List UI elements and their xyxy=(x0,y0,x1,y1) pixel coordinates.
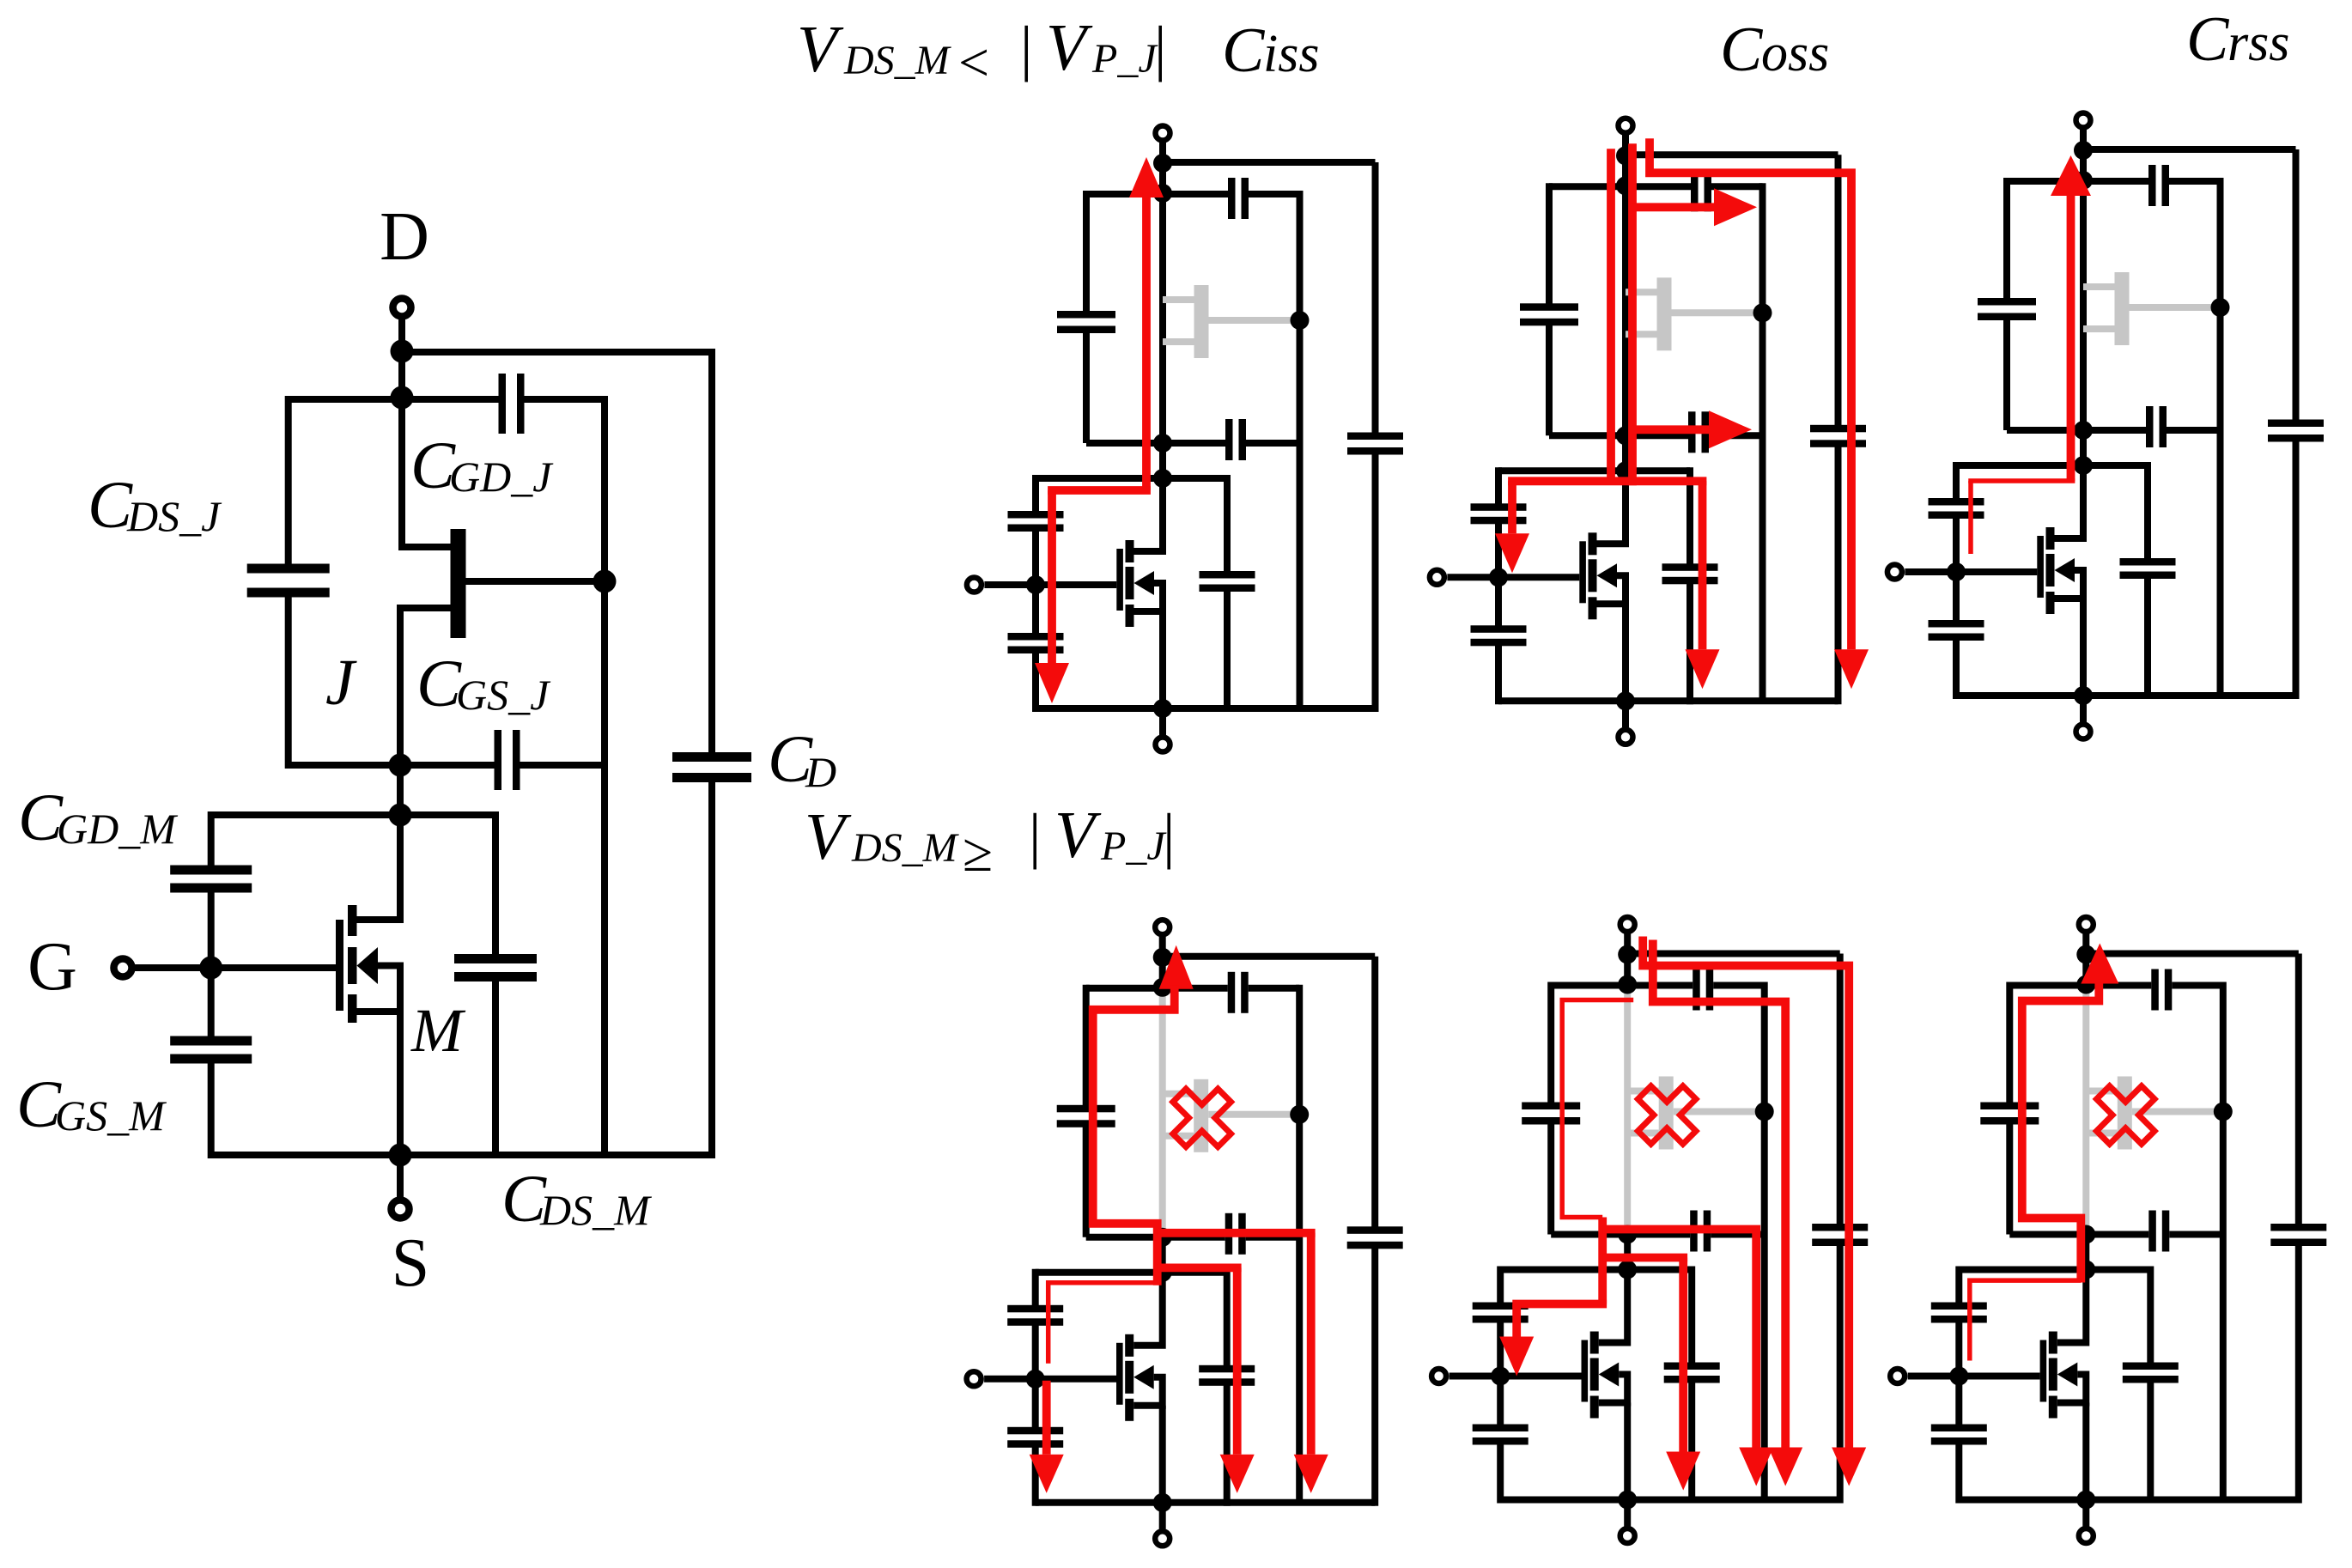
svg-text:V: V xyxy=(1046,10,1093,84)
svg-text:|: | xyxy=(1029,801,1041,870)
transistor J gate lead xyxy=(466,578,605,585)
current path Coss: branch down to CGD_M xyxy=(1508,481,1516,533)
current path Ciss: jog left above CGD_M xyxy=(1048,486,1151,495)
Coss circuit (VDS_M&lt;|VP_J|): capacitor CD xyxy=(1810,425,1866,447)
current path Coss: right vertical from D node xyxy=(1628,143,1637,485)
current path Crss: detour around off JFET xyxy=(2022,981,2100,1283)
junction dot M drain node xyxy=(389,804,412,827)
label CGS_J xyxy=(416,646,551,720)
Crss circuit (VDS_M&gt;=|VP_J|): junction dot JFET drain node xyxy=(2076,975,2095,994)
Crss circuit (VDS_M&lt;|VP_J|): capacitor CGD_M xyxy=(1929,498,1984,519)
Ciss circuit (VDS_M&gt;=|VP_J|): capacitor CD xyxy=(1347,1226,1403,1249)
label CGS_M xyxy=(16,1067,167,1141)
Ciss circuit (VDS_M&gt;=|VP_J|): transistor M gate bar xyxy=(1116,1343,1123,1405)
current path Coss: branch down into CGD_M xyxy=(1512,1304,1521,1337)
Crss circuit (VDS_M&lt;|VP_J|): junction dot S node xyxy=(2074,686,2093,705)
Ciss circuit (VDS_M&gt;=|VP_J|): node D terminal xyxy=(1155,920,1170,988)
current path Coss: branch down through CDS_M xyxy=(1699,481,1707,649)
Coss circuit (VDS_M&lt;|VP_J|): wire CD to S rail xyxy=(1835,443,1842,704)
Crss circuit (VDS_M&lt;|VP_J|): capacitor CDS_M xyxy=(2120,558,2176,579)
Coss circuit (VDS_M&lt;|VP_J|): junction dot S node xyxy=(1616,691,1635,710)
current path Ciss: arrow down through CDS_M xyxy=(1220,1455,1255,1493)
svg-text:|: | xyxy=(1020,14,1032,82)
current path Coss: arrow down through CD xyxy=(1834,649,1869,689)
capacitor CD xyxy=(672,752,751,782)
Coss circuit (VDS_M&lt;|VP_J|): wire CDS_J branch vertical xyxy=(1546,183,1553,307)
Crss circuit (VDS_M&lt;|VP_J|): wire CGS_J right segment xyxy=(2167,427,2221,434)
Ciss circuit (VDS_M&gt;=|VP_J|): wire M drain node horizontal xyxy=(1036,1269,1227,1276)
Coss circuit (VDS_M&lt;|VP_J|): wire CGD_J left segment xyxy=(1549,183,1691,190)
Crss circuit (VDS_M&lt;|VP_J|): wire right branch vertical xyxy=(2217,178,2224,696)
wire CGS_M branch vertical xyxy=(208,968,215,1041)
wire CDS_J branch vertical xyxy=(285,396,292,568)
svg-text:iss: iss xyxy=(1263,25,1319,83)
Crss circuit (VDS_M&gt;=|VP_J|): wire CGD_M branch vertical xyxy=(1955,1267,1962,1306)
Crss circuit (VDS_M&gt;=|VP_J|): transistor M source lead xyxy=(2057,1375,2087,1500)
label CDS_J xyxy=(88,467,222,542)
current path Coss: stub at D through CGD_J xyxy=(1653,940,1785,1448)
Ciss circuit (VDS_M&lt;|VP_J|): junction dot JFET source node xyxy=(1153,434,1172,453)
Crss circuit (VDS_M&lt;|VP_J|): transistor J source lead (inactive) xyxy=(2083,325,2115,332)
label M xyxy=(410,996,466,1065)
Crss circuit (VDS_M&lt;|VP_J|): junction dot D node xyxy=(2074,141,2093,160)
Crss circuit (VDS_M&gt;=|VP_J|): capacitor CD xyxy=(2270,1224,2326,1246)
current path Crss: thin branch toward gate xyxy=(1970,1280,2082,1360)
Coss circuit (VDS_M&gt;=|VP_J|): transistor J channel bar (inactive) xyxy=(1659,1077,1674,1150)
wire CDS_M branch vertical xyxy=(492,811,499,958)
Ciss circuit (VDS_M&lt;|VP_J|): wire node axis through JFET xyxy=(1159,193,1166,443)
Crss circuit (VDS_M&lt;|VP_J|): junction dot M drain node xyxy=(2074,456,2093,475)
svg-text:D: D xyxy=(805,748,836,796)
Crss circuit (VDS_M&lt;|VP_J|): junction dot JFET drain node xyxy=(2074,171,2093,190)
wire S rail xyxy=(211,1152,715,1158)
Coss circuit (VDS_M&gt;=|VP_J|): node S terminal xyxy=(1620,1500,1635,1544)
Coss circuit (VDS_M&lt;|VP_J|): capacitor CGS_M xyxy=(1471,625,1527,646)
Crss circuit (VDS_M&lt;|VP_J|): junction dot JFET source node xyxy=(2074,421,2093,440)
Crss circuit (VDS_M&lt;|VP_J|): wire CGS_M branch vertical xyxy=(1953,572,1960,623)
Coss circuit (VDS_M&gt;=|VP_J|): junction dot M drain node xyxy=(1618,1261,1637,1279)
transistor J drain lead xyxy=(402,398,451,547)
Ciss circuit (VDS_M&lt;|VP_J|): wire CGD_J right segment xyxy=(1249,191,1300,198)
svg-text:DS_J: DS_J xyxy=(126,492,222,540)
Crss circuit (VDS_M&gt;=|VP_J|): wire CD to S rail xyxy=(2295,1243,2302,1504)
Crss circuit (VDS_M&gt;=|VP_J|): wire CGS_J left segment xyxy=(2009,1231,2148,1238)
Ciss circuit (VDS_M&gt;=|VP_J|): junction dot D node xyxy=(1153,948,1172,967)
Crss circuit (VDS_M&gt;=|VP_J|): junction dot JFET gate xyxy=(2214,1103,2233,1121)
Coss circuit (VDS_M&lt;|VP_J|): wire S rail xyxy=(1498,697,1838,704)
Ciss circuit (VDS_M&lt;|VP_J|): capacitor CDS_J xyxy=(1057,311,1115,333)
Ciss circuit (VDS_M&gt;=|VP_J|): junction dot JFET gate xyxy=(1290,1105,1309,1124)
Crss circuit (VDS_M&gt;=|VP_J|): wire CGD_J right segment xyxy=(2172,982,2223,989)
current path Coss: arrow down into CGD_M xyxy=(1495,533,1529,573)
Ciss circuit (VDS_M&lt;|VP_J|): wire CDS_J to source node xyxy=(1083,330,1090,443)
Ciss circuit (VDS_M&gt;=|VP_J|): transistor J drain lead (inactive) xyxy=(1163,1091,1194,1097)
Ciss circuit (VDS_M&gt;=|VP_J|): junction dot JFET drain node xyxy=(1153,978,1172,997)
Ciss circuit (VDS_M&lt;|VP_J|): node G terminal xyxy=(967,578,982,593)
Crss circuit (VDS_M&lt;|VP_J|): transistor J channel bar (inactive) xyxy=(2115,272,2130,345)
label Ciss xyxy=(1222,15,1319,86)
Crss circuit (VDS_M&lt;|VP_J|): wire S rail xyxy=(1956,692,2296,699)
Coss circuit (VDS_M&lt;|VP_J|): wire CGS_J right segment xyxy=(1709,432,1763,439)
junction dot at D node xyxy=(391,340,414,363)
current path Ciss: branch right above CGS_J xyxy=(1158,1229,1316,1237)
current path Coss: arrow down into CGD_M xyxy=(1499,1337,1534,1377)
Coss circuit (VDS_M&lt;|VP_J|): wire CGS_J left segment xyxy=(1549,432,1688,439)
current path Coss: branch down right of CGS_J xyxy=(1752,1230,1760,1448)
Crss circuit (VDS_M&gt;=|VP_J|): wire CDS_J to source node xyxy=(2006,1121,2013,1235)
Ciss circuit (VDS_M&lt;|VP_J|): wire right branch vertical xyxy=(1297,191,1304,708)
current path Crss: thin tail into CGD_M xyxy=(1968,481,1973,554)
current path Coss: branch left to CGD_M xyxy=(1512,1300,1607,1309)
Ciss circuit (VDS_M&gt;=|VP_J|): transistor M source lead xyxy=(1133,1377,1163,1503)
Coss circuit (VDS_M&gt;=|VP_J|): transistor M channel segments xyxy=(1590,1332,1599,1419)
Ciss circuit (VDS_M&lt;|VP_J|): wire CD to S rail xyxy=(1372,451,1379,712)
svg-text:<: < xyxy=(958,32,989,93)
Ciss circuit (VDS_M&lt;|VP_J|): junction dot M drain node xyxy=(1153,469,1172,488)
svg-text:C: C xyxy=(1720,15,1764,85)
Coss circuit (VDS_M&lt;|VP_J|): junction dot JFET drain node xyxy=(1616,176,1635,195)
junction dot at JFET drain node xyxy=(391,386,414,410)
transistor M drain lead xyxy=(357,815,401,920)
svg-text:D: D xyxy=(380,199,429,275)
Coss circuit (VDS_M&gt;=|VP_J|): wire M drain node horizontal xyxy=(1500,1267,1692,1273)
Crss circuit (VDS_M&lt;|VP_J|): wire CDS_M to S rail xyxy=(2144,574,2151,699)
Coss circuit (VDS_M&gt;=|VP_J|): wire CDS_J branch vertical xyxy=(1547,982,1554,1106)
current path Ciss: branch down through CDS_M xyxy=(1233,1267,1242,1454)
Crss circuit (VDS_M&gt;=|VP_J|): wire M drain node horizontal xyxy=(1959,1267,2150,1273)
current path Coss: stub at D toward CD xyxy=(1650,138,1851,649)
Crss circuit (VDS_M&gt;=|VP_J|): capacitor CGS_J xyxy=(2148,1211,2169,1252)
Coss circuit (VDS_M&lt;|VP_J|): wire CGD_M to gate node xyxy=(1495,520,1502,577)
Ciss circuit (VDS_M&lt;|VP_J|): node D terminal xyxy=(1156,126,1170,195)
Crss circuit (VDS_M&lt;|VP_J|): node G terminal xyxy=(1887,565,1902,580)
Coss circuit (VDS_M&gt;=|VP_J|): transistor J source lead (inactive) xyxy=(1627,1130,1659,1137)
Crss circuit (VDS_M&lt;|VP_J|): wire CD to S rail xyxy=(2293,438,2300,699)
Coss circuit (VDS_M&lt;|VP_J|): wire M drain node horizontal xyxy=(1498,467,1690,474)
Ciss circuit (VDS_M&lt;|VP_J|): junction dot S node xyxy=(1153,699,1172,718)
Coss circuit (VDS_M&gt;=|VP_J|): JFET-off cross mark xyxy=(1638,1086,1696,1145)
node S terminal xyxy=(392,1155,410,1219)
Coss circuit (VDS_M&gt;=|VP_J|): wire to M drain node xyxy=(1624,1235,1631,1270)
Coss circuit (VDS_M&lt;|VP_J|): wire node axis through JFET xyxy=(1622,185,1629,435)
Ciss circuit (VDS_M&gt;=|VP_J|): wire right branch vertical xyxy=(1296,985,1303,1503)
svg-text:V: V xyxy=(805,799,852,873)
svg-text:C: C xyxy=(2186,4,2230,75)
Crss circuit (VDS_M&gt;=|VP_J|): transistor J source lead (inactive) xyxy=(2086,1130,2118,1137)
current path Ciss: branch down right rail xyxy=(1307,1233,1316,1455)
junction dot JFET source node xyxy=(389,754,412,777)
Ciss circuit (VDS_M&gt;=|VP_J|): capacitor CDS_M xyxy=(1199,1365,1255,1386)
Ciss circuit (VDS_M&gt;=|VP_J|): wire CD to S rail xyxy=(1371,1245,1378,1506)
Ciss circuit (VDS_M&lt;|VP_J|): wire D to CD branch xyxy=(1163,159,1376,166)
Ciss circuit (VDS_M&lt;|VP_J|): transistor J gate lead (inactive) xyxy=(1209,317,1300,324)
label D xyxy=(380,199,429,275)
Coss circuit (VDS_M&gt;=|VP_J|): junction dot JFET source node xyxy=(1618,1225,1637,1244)
Coss circuit (VDS_M&lt;|VP_J|): transistor J source lead (inactive) xyxy=(1626,331,1657,337)
Crss circuit (VDS_M&gt;=|VP_J|): node S terminal xyxy=(2079,1500,2094,1544)
Crss circuit (VDS_M&gt;=|VP_J|): node G terminal xyxy=(1890,1369,1905,1383)
Coss circuit (VDS_M&gt;=|VP_J|): transistor M body arrow xyxy=(1599,1363,1620,1387)
current path Ciss: detour around off JFET xyxy=(1093,986,1175,1285)
Ciss circuit (VDS_M&lt;|VP_J|): junction dot JFET gate xyxy=(1291,311,1310,330)
Coss circuit (VDS_M&gt;=|VP_J|): wire S rail xyxy=(1500,1497,1840,1504)
Crss circuit (VDS_M&lt;|VP_J|): capacitor CDS_J xyxy=(1978,298,2036,320)
Crss circuit (VDS_M&lt;|VP_J|): wire CGD_M to gate node xyxy=(1953,515,1960,572)
Coss circuit (VDS_M&gt;=|VP_J|): node D terminal xyxy=(1620,917,1635,986)
Ciss circuit (VDS_M&gt;=|VP_J|): wire S rail xyxy=(1036,1499,1376,1506)
Crss circuit (VDS_M&gt;=|VP_J|): transistor M channel segments xyxy=(2049,1332,2057,1419)
Ciss circuit (VDS_M&lt;|VP_J|): node S terminal xyxy=(1156,708,1170,752)
svg-text:G: G xyxy=(27,929,77,1005)
current path Ciss: arrow into D node xyxy=(1129,157,1164,198)
capacitor CDS_J xyxy=(247,564,330,598)
Ciss circuit (VDS_M&lt;|VP_J|): wire CGS_M to S rail xyxy=(1032,650,1039,712)
transistor M channel segments xyxy=(348,905,357,1023)
Crss circuit (VDS_M&gt;=|VP_J|): transistor J channel bar (inactive) xyxy=(2118,1077,2132,1150)
svg-text:GD_M: GD_M xyxy=(57,805,178,853)
current path Coss: branch through CGS_J xyxy=(1632,425,1709,434)
transistor M source lead xyxy=(357,966,401,1159)
Crss circuit (VDS_M&gt;=|VP_J|): capacitor CGD_M xyxy=(1931,1303,1987,1323)
capacitor CDS_M xyxy=(454,954,537,982)
Crss circuit (VDS_M&lt;|VP_J|): wire to M drain node xyxy=(2080,430,2087,465)
current path Coss: arrow down through CD xyxy=(1832,1448,1866,1486)
Coss circuit (VDS_M&gt;=|VP_J|): capacitor CDS_M xyxy=(1664,1363,1720,1383)
Coss circuit (VDS_M&lt;|VP_J|): wire G to MOSFET gate xyxy=(1447,574,1579,580)
wire M drain node horizontal xyxy=(211,811,495,818)
Ciss circuit (VDS_M&gt;=|VP_J|): JFET-off cross mark xyxy=(1173,1089,1231,1147)
Crss circuit (VDS_M&gt;=|VP_J|): wire right branch vertical xyxy=(2220,982,2227,1500)
Crss circuit (VDS_M&lt;|VP_J|): transistor M gate bar xyxy=(2037,536,2044,598)
Crss circuit (VDS_M&lt;|VP_J|): capacitor CD xyxy=(2268,420,2324,442)
Coss circuit (VDS_M&gt;=|VP_J|): transistor M drain lead xyxy=(1599,1270,1628,1343)
label S xyxy=(392,1225,430,1301)
Ciss circuit (VDS_M&gt;=|VP_J|): wire CDS_J to source node xyxy=(1083,1124,1090,1237)
Crss circuit (VDS_M&gt;=|VP_J|): transistor J gate lead (inactive) xyxy=(2132,1109,2223,1115)
Ciss circuit (VDS_M&gt;=|VP_J|): node S terminal xyxy=(1155,1503,1170,1547)
current path Coss: vertical at M drain xyxy=(1598,1218,1607,1304)
Crss circuit (VDS_M&gt;=|VP_J|): wire CGS_M to S rail xyxy=(1955,1442,1962,1504)
Coss circuit (VDS_M&lt;|VP_J|): junction dot G node xyxy=(1489,568,1508,586)
svg-text:GS_J: GS_J xyxy=(456,671,551,719)
Ciss circuit (VDS_M&lt;|VP_J|): capacitor CD xyxy=(1347,433,1403,455)
current path Coss: horizontal distribution at M drain xyxy=(1508,477,1706,485)
label Coss xyxy=(1720,15,1829,85)
Ciss circuit (VDS_M&gt;=|VP_J|): transistor M channel segments xyxy=(1125,1334,1133,1421)
current path Coss: arrow down through CDS_M xyxy=(1686,649,1720,689)
transistor M gate bar xyxy=(336,920,343,1011)
Coss circuit (VDS_M&lt;|VP_J|): wire CGS_M to S rail xyxy=(1495,642,1502,704)
Coss circuit (VDS_M&gt;=|VP_J|): transistor J drain lead (inactive) xyxy=(1627,1088,1659,1095)
Coss circuit (VDS_M&lt;|VP_J|): wire D to CD branch xyxy=(1626,151,1838,158)
wire CGD_M branch vertical xyxy=(208,811,215,870)
Ciss circuit (VDS_M&lt;|VP_J|): transistor M drain lead xyxy=(1134,478,1164,551)
Ciss circuit (VDS_M&gt;=|VP_J|): wire CDS_J branch vertical xyxy=(1083,985,1090,1109)
Ciss circuit (VDS_M&gt;=|VP_J|): junction dot S node xyxy=(1153,1493,1172,1512)
Crss circuit (VDS_M&gt;=|VP_J|): junction dot M drain node xyxy=(2076,1261,2095,1279)
Coss circuit (VDS_M&gt;=|VP_J|): junction dot G node xyxy=(1491,1367,1510,1386)
Coss circuit (VDS_M&lt;|VP_J|): junction dot D node xyxy=(1616,146,1635,165)
Ciss circuit (VDS_M&gt;=|VP_J|): wire CD branch vertical xyxy=(1371,957,1378,1231)
Crss circuit (VDS_M&gt;=|VP_J|): junction dot D node xyxy=(2076,945,2095,964)
Ciss circuit (VDS_M&lt;|VP_J|): wire CDS_M branch vertical xyxy=(1224,475,1231,575)
svg-text:J: J xyxy=(325,647,357,719)
Coss circuit (VDS_M&gt;=|VP_J|): capacitor CGS_M xyxy=(1473,1425,1528,1445)
capacitor CGD_J xyxy=(499,374,525,434)
Crss circuit (VDS_M&lt;|VP_J|): wire D to CD branch xyxy=(2083,146,2296,153)
Crss circuit (VDS_M&gt;=|VP_J|): wire CDS_M branch vertical xyxy=(2147,1267,2154,1367)
capacitor CGD_M xyxy=(170,866,252,893)
Ciss circuit (VDS_M&gt;=|VP_J|): junction dot JFET source node xyxy=(1153,1228,1172,1247)
Ciss circuit (VDS_M&lt;|VP_J|): wire CGD_M branch vertical xyxy=(1032,475,1039,514)
wire CGS_J right segment xyxy=(520,762,605,769)
Ciss circuit (VDS_M&lt;|VP_J|): transistor J channel bar (inactive) xyxy=(1194,285,1209,358)
svg-text:S: S xyxy=(392,1225,430,1301)
Coss circuit (VDS_M&gt;=|VP_J|): wire right branch vertical xyxy=(1761,982,1768,1500)
node D terminal xyxy=(393,299,411,400)
Crss circuit (VDS_M&gt;=|VP_J|): junction dot S node xyxy=(2076,1491,2095,1510)
Coss circuit (VDS_M&gt;=|VP_J|): wire CGD_M to gate node xyxy=(1497,1320,1504,1377)
Crss circuit (VDS_M&lt;|VP_J|): transistor M channel segments xyxy=(2046,527,2055,614)
Crss circuit (VDS_M&gt;=|VP_J|): wire node axis through JFET xyxy=(2082,985,2089,1235)
Ciss circuit (VDS_M&lt;|VP_J|): wire CGS_J right segment xyxy=(1246,440,1300,447)
Ciss circuit (VDS_M&gt;=|VP_J|): wire CGS_M branch vertical xyxy=(1032,1379,1039,1431)
Ciss circuit (VDS_M&gt;=|VP_J|): capacitor CGD_J xyxy=(1228,972,1249,1013)
Coss circuit (VDS_M&lt;|VP_J|): transistor J gate lead (inactive) xyxy=(1672,309,1763,316)
Crss circuit (VDS_M&gt;=|VP_J|): capacitor CGD_J xyxy=(2151,969,2172,1011)
Ciss circuit (VDS_M&lt;|VP_J|): wire CD branch vertical xyxy=(1372,162,1379,436)
Crss circuit (VDS_M&gt;=|VP_J|): JFET-off cross mark xyxy=(2097,1086,2155,1145)
Ciss circuit (VDS_M&gt;=|VP_J|): wire CGD_M to gate node xyxy=(1032,1322,1039,1379)
Crss circuit (VDS_M&lt;|VP_J|): transistor M source lead xyxy=(2055,570,2084,696)
wire CGD_J left segment xyxy=(289,396,499,403)
Crss circuit (VDS_M&gt;=|VP_J|): wire CGS_J right segment xyxy=(2169,1231,2223,1238)
Coss circuit (VDS_M&lt;|VP_J|): wire CD branch vertical xyxy=(1835,155,1842,428)
Crss circuit (VDS_M&lt;|VP_J|): wire CDS_J branch vertical xyxy=(2003,178,2010,301)
Crss circuit (VDS_M&lt;|VP_J|): junction dot G node xyxy=(1947,562,1966,581)
Ciss circuit (VDS_M&lt;|VP_J|): wire G to MOSFET gate xyxy=(984,581,1116,588)
Coss circuit (VDS_M&gt;=|VP_J|): wire CD branch vertical xyxy=(1837,954,1844,1228)
Ciss circuit (VDS_M&gt;=|VP_J|): capacitor CGS_J xyxy=(1225,1213,1246,1255)
Coss circuit (VDS_M&lt;|VP_J|): transistor M body arrow xyxy=(1597,563,1618,587)
Ciss circuit (VDS_M&gt;=|VP_J|): capacitor CGD_M xyxy=(1007,1305,1063,1326)
Coss circuit (VDS_M&lt;|VP_J|): capacitor CGS_J xyxy=(1688,411,1709,453)
Ciss circuit (VDS_M&lt;|VP_J|): wire to M drain node xyxy=(1159,443,1166,478)
Ciss circuit (VDS_M&lt;|VP_J|): capacitor CGS_M xyxy=(1008,633,1064,653)
current path Coss: arrow right through CGS_J xyxy=(1709,410,1752,448)
Ciss circuit (VDS_M&lt;|VP_J|): junction dot JFET drain node xyxy=(1153,184,1172,203)
current path Ciss: vertical through CGD_M and CGS_M xyxy=(1048,490,1056,665)
Coss circuit (VDS_M&lt;|VP_J|): node D terminal xyxy=(1619,119,1633,187)
Crss circuit (VDS_M&gt;=|VP_J|): wire CDS_M to S rail xyxy=(2147,1379,2154,1504)
Coss circuit (VDS_M&lt;|VP_J|): transistor J channel bar (inactive) xyxy=(1657,277,1672,350)
current path Crss: arrow into D node xyxy=(2081,944,2118,984)
current path Coss: left vertical from D node xyxy=(1607,149,1615,481)
Ciss circuit (VDS_M&gt;=|VP_J|): wire CGD_J right segment xyxy=(1249,985,1300,992)
Coss circuit (VDS_M&gt;=|VP_J|): wire node axis through JFET xyxy=(1624,985,1631,1235)
Crss circuit (VDS_M&gt;=|VP_J|): wire CGD_M to gate node xyxy=(1955,1320,1962,1377)
junction dot JFET gate xyxy=(593,570,617,593)
Coss circuit (VDS_M&lt;|VP_J|): wire CGS_M branch vertical xyxy=(1495,577,1502,629)
Ciss circuit (VDS_M&lt;|VP_J|): wire CGD_M to gate node xyxy=(1032,528,1039,585)
Coss circuit (VDS_M&lt;|VP_J|): wire right branch vertical xyxy=(1759,183,1766,701)
Ciss circuit (VDS_M&lt;|VP_J|): capacitor CGS_J xyxy=(1225,419,1246,460)
Crss circuit (VDS_M&lt;|VP_J|): junction dot JFET gate xyxy=(2211,298,2230,317)
Crss circuit (VDS_M&gt;=|VP_J|): capacitor CDS_M xyxy=(2123,1363,2179,1383)
wire CDS_J to source node xyxy=(285,593,292,769)
current path Crss: arrow into D node xyxy=(2051,155,2091,196)
current path Coss: stub at D toward CD xyxy=(1643,937,1849,1448)
Ciss circuit (VDS_M&gt;=|VP_J|): transistor J source lead (inactive) xyxy=(1163,1133,1194,1140)
Coss circuit (VDS_M&gt;=|VP_J|): wire D to CD branch xyxy=(1627,951,1840,957)
Coss circuit (VDS_M&gt;=|VP_J|): wire CD to S rail xyxy=(1837,1243,1844,1504)
Ciss circuit (VDS_M&lt;|VP_J|): capacitor CGD_J xyxy=(1228,178,1249,219)
Coss circuit (VDS_M&gt;=|VP_J|): wire CGD_J right segment xyxy=(1713,982,1765,989)
Coss circuit (VDS_M&lt;|VP_J|): junction dot M drain node xyxy=(1616,461,1635,480)
wire CD branch vertical xyxy=(708,349,715,757)
current path Ciss: vertical along JFET axis xyxy=(1142,193,1151,490)
Ciss circuit (VDS_M&lt;|VP_J|): transistor M source lead xyxy=(1134,583,1164,708)
Coss circuit (VDS_M&lt;|VP_J|): capacitor CGD_M xyxy=(1471,503,1527,524)
current path Coss: branch through CGD_J xyxy=(1632,203,1714,211)
Crss circuit (VDS_M&lt;|VP_J|): wire node axis through JFET xyxy=(2080,180,2087,430)
Coss circuit (VDS_M&lt;|VP_J|): transistor M gate bar xyxy=(1579,541,1586,603)
Crss circuit (VDS_M&lt;|VP_J|): transistor M drain lead xyxy=(2055,465,2084,538)
Coss circuit (VDS_M&lt;|VP_J|): wire CDS_J to source node xyxy=(1546,322,1553,435)
svg-text:oss: oss xyxy=(1761,24,1829,82)
wire JFET source to M drain node xyxy=(397,765,404,815)
Crss circuit (VDS_M&gt;=|VP_J|): wire CD branch vertical xyxy=(2295,954,2302,1228)
Crss circuit (VDS_M&gt;=|VP_J|): transistor M drain lead xyxy=(2057,1270,2087,1343)
wire G to MOSFET gate xyxy=(135,964,336,971)
Ciss circuit (VDS_M&gt;=|VP_J|): wire to M drain node xyxy=(1159,1237,1166,1273)
Crss circuit (VDS_M&lt;|VP_J|): transistor M body arrow xyxy=(2055,558,2075,582)
Crss circuit (VDS_M&gt;=|VP_J|): wire S rail xyxy=(1959,1497,2299,1504)
Crss circuit (VDS_M&lt;|VP_J|): wire CGS_J left segment xyxy=(2007,427,2146,434)
Ciss circuit (VDS_M&lt;|VP_J|): transistor M gate bar xyxy=(1116,549,1123,611)
Coss circuit (VDS_M&lt;|VP_J|): wire to M drain node xyxy=(1622,435,1629,471)
Crss circuit (VDS_M&gt;=|VP_J|): junction dot JFET source node xyxy=(2076,1225,2095,1244)
current path Ciss: branch right to CDS_M xyxy=(1158,1264,1242,1273)
Ciss circuit (VDS_M&gt;=|VP_J|): wire CGD_J left segment xyxy=(1086,985,1228,992)
Coss circuit (VDS_M&gt;=|VP_J|): wire CGS_J left segment xyxy=(1551,1231,1690,1238)
Crss circuit (VDS_M&lt;|VP_J|): transistor J gate lead (inactive) xyxy=(2130,304,2221,311)
Crss circuit (VDS_M&gt;=|VP_J|): node D terminal xyxy=(2079,917,2094,986)
Coss circuit (VDS_M&gt;=|VP_J|): wire CDS_M to S rail xyxy=(1688,1379,1695,1504)
svg-text:V: V xyxy=(1054,798,1102,872)
Ciss circuit (VDS_M&gt;=|VP_J|): junction dot G node xyxy=(1026,1370,1045,1389)
Coss circuit (VDS_M&lt;|VP_J|): transistor M drain lead xyxy=(1597,471,1626,544)
Crss circuit (VDS_M&lt;|VP_J|): capacitor CGS_M xyxy=(1929,620,1984,641)
Coss circuit (VDS_M&gt;=|VP_J|): wire CGS_M branch vertical xyxy=(1497,1377,1504,1428)
Crss circuit (VDS_M&gt;=|VP_J|): capacitor CGS_M xyxy=(1931,1425,1987,1445)
current path Ciss: arrow down through CGS_M xyxy=(1030,1455,1064,1493)
Coss circuit (VDS_M&gt;=|VP_J|): wire CGD_J left segment xyxy=(1551,982,1693,989)
Coss circuit (VDS_M&gt;=|VP_J|): wire CGS_J right segment xyxy=(1711,1231,1765,1238)
Ciss circuit (VDS_M&lt;|VP_J|): wire CGD_J left segment xyxy=(1086,191,1228,198)
Coss circuit (VDS_M&lt;|VP_J|): wire CDS_M to S rail xyxy=(1687,580,1693,704)
svg-text:|: | xyxy=(1163,801,1175,870)
Coss circuit (VDS_M&gt;=|VP_J|): capacitor CDS_J xyxy=(1522,1103,1580,1125)
Ciss circuit (VDS_M&lt;|VP_J|): transistor J drain lead (inactive) xyxy=(1163,296,1194,303)
Crss circuit (VDS_M&lt;|VP_J|): wire G to MOSFET gate xyxy=(1905,568,2037,575)
Crss circuit (VDS_M&lt;|VP_J|): node S terminal xyxy=(2076,696,2091,739)
current path Coss: thin detour around off JFET xyxy=(1562,1000,1633,1218)
Ciss circuit (VDS_M&lt;|VP_J|): wire S rail xyxy=(1036,705,1376,712)
Coss circuit (VDS_M&gt;=|VP_J|): capacitor CGS_J xyxy=(1690,1211,1711,1252)
Coss circuit (VDS_M&gt;=|VP_J|): wire CDS_M branch vertical xyxy=(1688,1267,1695,1367)
svg-text:≥: ≥ xyxy=(963,822,993,883)
